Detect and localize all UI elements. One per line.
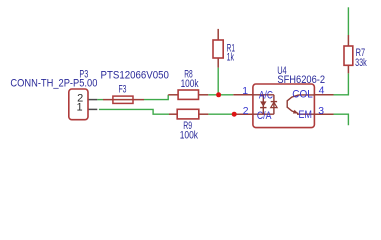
svg-text:C/A: C/A — [257, 110, 272, 122]
svg-text:1: 1 — [76, 101, 82, 113]
svg-text:F3: F3 — [119, 84, 127, 96]
svg-text:2: 2 — [243, 106, 249, 117]
svg-text:4: 4 — [319, 86, 325, 97]
svg-text:CONN-TH_2P-P5.00: CONN-TH_2P-P5.00 — [10, 77, 97, 89]
svg-text:COL: COL — [292, 89, 313, 101]
svg-text:A/C: A/C — [259, 90, 273, 102]
svg-text:1k: 1k — [227, 52, 235, 64]
svg-text:33k: 33k — [355, 57, 367, 69]
svg-text:1: 1 — [242, 86, 248, 97]
svg-text:100k: 100k — [180, 130, 199, 142]
svg-text:3: 3 — [318, 106, 324, 117]
svg-text:100k: 100k — [181, 78, 199, 90]
svg-text:PTS12066V050: PTS12066V050 — [101, 70, 169, 82]
svg-text:SFH6206-2: SFH6206-2 — [277, 74, 325, 86]
svg-text:EM: EM — [299, 109, 312, 121]
